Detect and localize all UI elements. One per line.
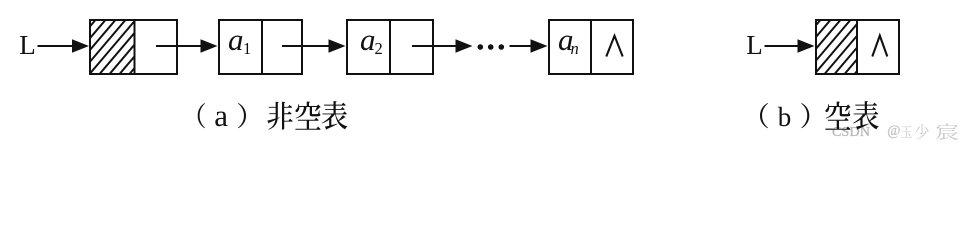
- hatched data cell: [775, 21, 900, 74]
- svg-text:@: @: [887, 123, 900, 139]
- arrow L to head node: [765, 45, 800, 47]
- caption (a) 非空表: [198, 103, 205, 128]
- node a1 divider: [261, 20, 263, 75]
- svg-text:b: b: [778, 102, 792, 132]
- caption (b) 空表: [760, 103, 768, 128]
- svg-text:L: L: [746, 30, 763, 60]
- node a1 box: [219, 20, 302, 74]
- arrow a1 to a2: [282, 45, 331, 47]
- svg-text:a: a: [228, 22, 244, 57]
- head node divider: [856, 20, 858, 75]
- arrow a2 to ellipsis: [412, 45, 458, 47]
- head node box: [90, 20, 177, 74]
- svg-text:n: n: [571, 39, 579, 58]
- head node divider: [134, 20, 136, 75]
- head node hatched data cell: [50, 21, 185, 74]
- node a2 divider: [389, 20, 391, 75]
- arrow head node to a1: [156, 45, 203, 47]
- node an box: [549, 20, 633, 74]
- empty list head node box: [816, 20, 899, 74]
- svg-text:L: L: [19, 30, 36, 60]
- node an divider: [590, 20, 592, 75]
- ellipsis dots: [478, 44, 484, 50]
- arrow L to head node: [38, 45, 75, 47]
- null pointer symbol in an: [606, 36, 622, 57]
- svg-text:a: a: [360, 22, 376, 57]
- svg-text:1: 1: [243, 39, 251, 58]
- null pointer symbol: [872, 36, 887, 57]
- svg-text:a: a: [214, 98, 228, 133]
- watermark CSDN @玉少宸: [826, 123, 959, 140]
- node a2 box: [347, 20, 433, 74]
- svg-text:2: 2: [375, 39, 383, 58]
- arrow ellipsis to an: [510, 45, 533, 47]
